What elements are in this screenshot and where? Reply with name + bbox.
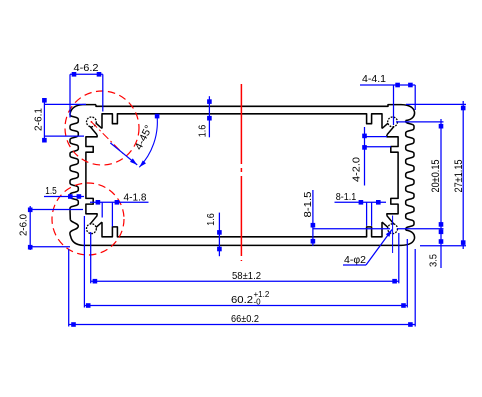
corner screw boss BR (slot walls + phi2 hole) [382,222,388,227]
enclosure outer profile with heatsink fins [70,105,415,246]
svg-text:8-1.1: 8-1.1 [336,191,357,203]
dimension 20 +/-0.15 [440,119,442,232]
top plate inner surface with ribs [102,114,382,129]
dimension 4-1.8 [90,201,149,203]
dimension 8-1.5 [312,190,314,246]
dimension 1.6 bottom plate [218,213,220,257]
dimension 27 +/-1.15 [462,101,464,249]
svg-text:2-6.1: 2-6.1 [33,108,45,131]
svg-text:1.5: 1.5 [45,185,57,197]
svg-text:4-2.0: 4-2.0 [351,157,363,182]
red detail circle top-left [65,91,139,165]
dimension 2-6.1 [43,99,45,143]
svg-text:20±0.15: 20±0.15 [430,160,442,193]
corner screw boss TR (slot walls + phi2 hole) [382,123,388,128]
corner screw boss BL (slot walls + phi2 hole) [96,222,102,227]
red detail circle bottom-left [52,183,124,255]
dimension 1.6 top plate [208,96,210,137]
svg-text:1.6: 1.6 [205,213,217,226]
dimension 8-1.1 [335,201,387,203]
svg-text:60.2: 60.2 [231,294,253,306]
dimension 58 +/-1.2 [91,280,399,282]
svg-text:4-4.1: 4-4.1 [362,73,386,85]
bottom plate inner surface with ribs [102,222,382,237]
svg-text:2-6.0: 2-6.0 [18,214,30,236]
red vertical centerline [240,84,242,261]
dimension 66 +/-0.2 [69,324,416,326]
angular dimension 4-45deg [139,116,157,167]
svg-text:8-1.5: 8-1.5 [302,191,314,217]
svg-text:4-6.2: 4-6.2 [74,62,99,74]
svg-text:1.6: 1.6 [197,125,209,138]
svg-text:-0: -0 [254,298,262,307]
svg-text:4-1.8: 4-1.8 [124,192,147,204]
screw hole vertical centerline bottom-right [392,216,394,254]
svg-text:27±1.15: 27±1.15 [453,160,465,193]
dimension 1.5 [44,196,84,198]
dimension 3.5 [440,229,442,268]
dimension 4-4.1 [360,84,415,86]
left wall inner face with PCB ribs [86,135,97,216]
red 45-degree axis line through top-left boss [91,122,123,154]
svg-text:66±0.2: 66±0.2 [231,313,259,325]
dimension 2-6.0 [29,206,31,250]
dimension 4-6.2 [70,73,103,75]
svg-text:4-φ2: 4-φ2 [344,254,366,266]
right wall inner face with PCB ribs [387,135,398,216]
svg-text:58±1.2: 58±1.2 [232,270,261,282]
dimension 4-2.0 [364,127,366,186]
svg-text:3.5: 3.5 [428,254,440,267]
dimension 60.2 +1.2/-0 [84,305,407,307]
corner screw boss TL (slot walls + phi2 hole) [96,123,102,128]
